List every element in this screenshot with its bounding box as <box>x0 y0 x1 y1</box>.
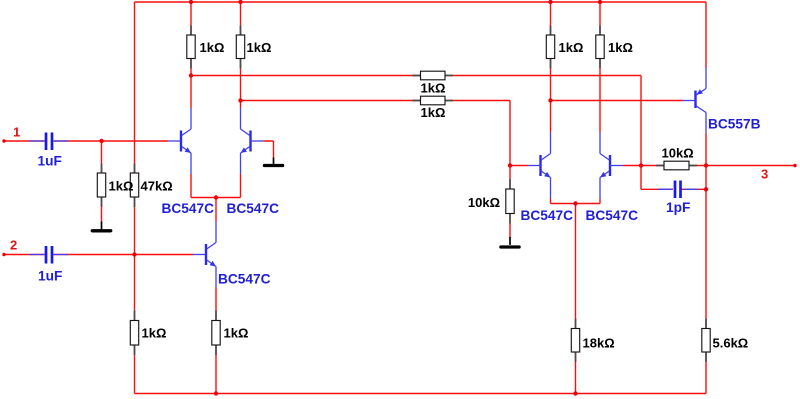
capacitor C3 1pF <box>658 181 698 199</box>
junction dot node2/left rail <box>132 252 136 256</box>
wire C3 right <box>682 188 707 190</box>
wire Q3 emitter down to bottom rail via R10 <box>215 288 217 394</box>
resistor R2 1kOhm <box>236 26 244 69</box>
wire stage1 common emitter <box>191 197 241 199</box>
wire left rail (top rail to bottom rail, carries 47k/1k divider) <box>134 2 136 394</box>
svg-text:3: 3 <box>761 167 768 182</box>
junction dot stage2 tail <box>573 201 577 205</box>
wire R6 branch (top rail to Q5 collector) <box>599 2 601 133</box>
resistor R1 1kOhm <box>187 26 195 69</box>
transistor Q3 BC547C <box>193 222 216 288</box>
wire stage2 tail to bottom rail via R13 <box>575 204 577 394</box>
svg-text:1kΩ: 1kΩ <box>109 179 134 194</box>
junction dot stage1 tail <box>214 195 218 199</box>
wire R1 branch (top rail to Q1 collector) <box>190 2 192 108</box>
junction dot wire2/R2 <box>238 98 242 102</box>
junction dot Q5 base / R12 left <box>639 163 643 167</box>
svg-text:1pF: 1pF <box>666 200 690 215</box>
svg-text:47kΩ: 47kΩ <box>141 179 173 194</box>
ground G1 (below R7) <box>92 222 110 231</box>
svg-text:1kΩ: 1kΩ <box>421 81 446 96</box>
wire C1 to Q1 base <box>54 140 169 142</box>
svg-text:BC547C: BC547C <box>218 272 271 287</box>
transistor Q1 BC547C <box>168 108 191 174</box>
node 3 terminal <box>793 164 796 167</box>
svg-text:1kΩ: 1kΩ <box>224 326 249 341</box>
junction dot Q4 collector node <box>548 98 552 102</box>
wire Q6 emitter to top rail <box>705 2 707 68</box>
svg-text:5.6kΩ: 5.6kΩ <box>713 336 749 351</box>
wire stage1 output2 through R4 <box>241 100 511 102</box>
wire stage1 output through R3 to node at x641 <box>191 75 641 77</box>
svg-text:BC547C: BC547C <box>586 208 639 223</box>
wire stage2 common emitter <box>551 203 601 205</box>
svg-text:1: 1 <box>13 125 20 140</box>
svg-text:10kΩ: 10kΩ <box>468 195 500 210</box>
svg-text:1kΩ: 1kΩ <box>421 105 446 120</box>
wire node1 junction down to ground via R7 <box>101 141 103 222</box>
junction dot C3 right <box>704 187 708 191</box>
wire node 3 output <box>706 165 795 167</box>
svg-text:BC547C: BC547C <box>227 201 280 216</box>
wire Q4 collector node to Q6 base <box>551 100 684 102</box>
junction dot top rail R6 <box>598 0 602 4</box>
junction dot Q4 base <box>508 163 512 167</box>
junction dot top rail R5 <box>548 0 552 4</box>
wire Q4 emitter down <box>550 199 552 204</box>
svg-text:1kΩ: 1kΩ <box>200 40 225 55</box>
resistor R13 18kOhm <box>571 319 579 363</box>
capacitor C2 1uF <box>29 246 68 264</box>
wire R2 branch (top rail to Q2 collector) <box>240 2 242 108</box>
resistor R11 10kOhm <box>506 179 514 224</box>
wire C3 left <box>641 188 673 190</box>
svg-text:18kΩ: 18kΩ <box>583 336 615 351</box>
svg-text:1kΩ: 1kΩ <box>608 40 633 55</box>
resistor R9 1kOhm bottom left <box>130 311 138 356</box>
wire Q4 base <box>510 165 528 167</box>
resistor R4 1kOhm horizontal <box>413 96 454 105</box>
wire descent x641 (R3 node down to Q5 base row and C3) <box>640 76 642 190</box>
resistor R8 47kOhm bias <box>130 164 138 208</box>
transistor Q4 BC547C <box>528 133 551 199</box>
resistor R10 1kOhm bottom <box>212 311 220 356</box>
resistor R5 1kOhm <box>546 26 554 69</box>
wire stage1 tail to Q3 collector <box>215 198 217 222</box>
svg-text:2: 2 <box>10 238 17 253</box>
transistor Q5 BC547C (mirrored) <box>600 133 623 199</box>
wire R12 row <box>641 165 706 167</box>
wire Q2 emitter down <box>240 174 242 198</box>
wire Q5 emitter down <box>599 199 601 204</box>
capacitor C1 1uF <box>29 133 68 151</box>
wire node 2 input to C2 <box>4 254 45 256</box>
junction dot node1/R7 <box>99 139 103 143</box>
transistor Q2 BC547C (mirrored) <box>241 108 264 174</box>
junction dot top rail R1 <box>189 0 193 4</box>
svg-text:1kΩ: 1kΩ <box>247 40 272 55</box>
svg-text:10kΩ: 10kΩ <box>662 146 694 161</box>
svg-text:1kΩ: 1kΩ <box>559 40 584 55</box>
wire Q5 base <box>623 165 641 167</box>
ground G3 (below R11) <box>501 237 519 247</box>
transistor Q6 BC557B (PNP) <box>683 68 707 134</box>
wire Q1 emitter down <box>190 174 192 198</box>
node 2 terminal <box>2 253 5 256</box>
svg-text:BC547C: BC547C <box>162 201 215 216</box>
svg-text:BC547C: BC547C <box>521 208 574 223</box>
ground G2 (Q2 base) <box>264 158 282 166</box>
wire top supply rail <box>135 1 707 3</box>
wire node 1 input to C1 <box>4 140 45 142</box>
junction dot node3 / R12 right <box>704 163 708 167</box>
junction dot bottom rail R13 <box>573 391 577 395</box>
wire R5 branch (top rail to Q4 collector) <box>550 2 552 133</box>
wire Q2 base to ground <box>264 141 274 158</box>
wire bottom rail <box>135 393 707 395</box>
junction dot wire1/R1 <box>189 73 193 77</box>
svg-text:1kΩ: 1kΩ <box>142 326 167 341</box>
wire C2 to Q3 base <box>54 254 194 256</box>
resistor R14 5.6kOhm <box>702 319 710 363</box>
svg-text:1uF: 1uF <box>38 269 62 284</box>
resistor R3 1kOhm horizontal <box>413 71 454 80</box>
wire down to Q4 base and R11 <box>509 101 511 238</box>
svg-text:BC557B: BC557B <box>708 117 761 132</box>
resistor R7 1kOhm bias <box>97 164 105 208</box>
resistor R12 10kOhm horizontal <box>656 161 697 170</box>
node 1 terminal <box>2 139 5 142</box>
resistor R6 1kOhm <box>596 26 604 69</box>
junction dot bottom rail R10 <box>214 391 218 395</box>
wire Q6 collector down to bottom rail via R14 <box>705 134 707 394</box>
svg-text:1uF: 1uF <box>38 154 62 169</box>
junction dot top rail R2 <box>238 0 242 4</box>
